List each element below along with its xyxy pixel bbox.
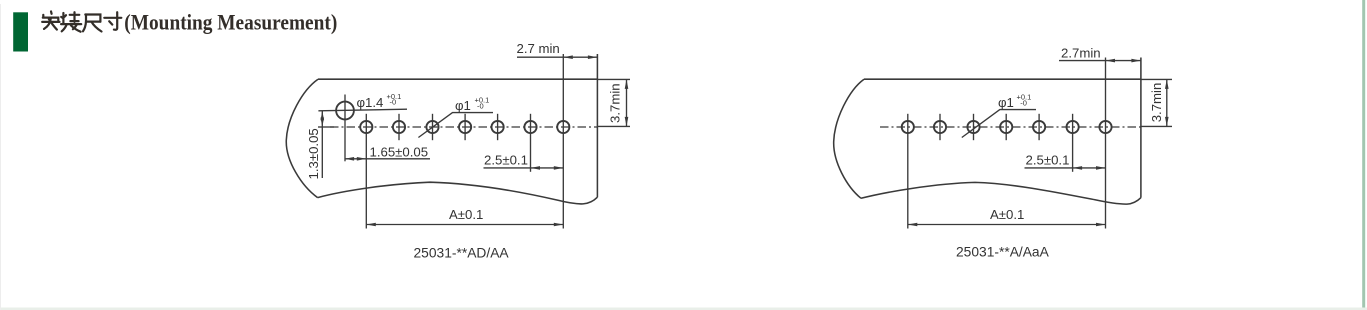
hole L6 bbox=[524, 121, 536, 133]
hole R3 bbox=[967, 121, 979, 133]
pcb left edge L bbox=[286, 79, 318, 197]
arrow 2.5 L left bbox=[531, 166, 541, 170]
dim line A R bbox=[908, 224, 1106, 226]
dim line 2.5 R bbox=[1025, 167, 1106, 169]
hole R5 axis bbox=[1038, 114, 1040, 140]
title chinese 安 bbox=[42, 11, 59, 29]
hole L0 vertical axis + ext bbox=[344, 95, 346, 162]
arrow A L left bbox=[366, 223, 376, 227]
centerline R bbox=[880, 126, 1141, 128]
hole L0 (large) bbox=[336, 102, 354, 120]
arrow 2.7 R left bbox=[1106, 59, 1116, 63]
arrow 3.7 R up bbox=[1165, 79, 1169, 89]
pcb left edge R bbox=[834, 79, 864, 198]
hole R4 bbox=[1000, 121, 1012, 133]
pcb right edge R bbox=[1140, 58, 1142, 198]
pcb top edge R bbox=[864, 78, 1141, 80]
arrow 3.7 R down bbox=[1165, 117, 1169, 127]
hole R7 bbox=[1099, 121, 1111, 133]
arrow 3.7 L up bbox=[625, 79, 629, 89]
arrow 2.7 L right bbox=[588, 55, 598, 59]
hole L3 bbox=[426, 121, 438, 133]
hole R1 bbox=[902, 121, 914, 133]
svg-text:2.7min: 2.7min bbox=[1061, 45, 1101, 60]
svg-text:2.7 min: 2.7 min bbox=[517, 41, 560, 56]
hole L5 axis bbox=[497, 114, 499, 140]
hole R4 axis bbox=[1005, 114, 1007, 140]
hole L7 bbox=[557, 121, 569, 133]
hole R3 axis bbox=[973, 114, 975, 140]
svg-text:(Mounting Measurement): (Mounting Measurement) bbox=[124, 10, 337, 35]
pcb top edge L bbox=[318, 78, 597, 80]
arrow A R right bbox=[1096, 223, 1106, 227]
hole R2 axis bbox=[939, 114, 941, 140]
svg-text:3.7min: 3.7min bbox=[608, 83, 623, 123]
hole R5 bbox=[1033, 121, 1045, 133]
dim line 3.7min R bbox=[1166, 79, 1168, 126]
leader phi1 L bbox=[418, 113, 493, 138]
svg-text:25031-**AD/AA: 25031-**AD/AA bbox=[414, 246, 510, 261]
hole L1 bbox=[360, 121, 372, 133]
arrow 2.5 R left bbox=[1073, 166, 1083, 170]
hole L4 bbox=[459, 121, 471, 133]
arrow 3.7 L down bbox=[625, 117, 629, 127]
hole R6 axis + 2.5 ext bbox=[1072, 114, 1074, 172]
hole R1 axis + A ext bbox=[907, 114, 909, 229]
hole L6 axis + 2.5 ext bbox=[530, 114, 532, 172]
hole L7 axis + exts bbox=[562, 54, 564, 229]
arrow 2.7 R right bbox=[1131, 59, 1141, 63]
svg-text:2.5±0.1: 2.5±0.1 bbox=[484, 153, 528, 168]
arrow A L right bbox=[554, 223, 564, 227]
hole L2 axis bbox=[398, 114, 400, 140]
hole R7 axis + exts bbox=[1105, 58, 1107, 229]
dim line 1.65 L bbox=[345, 158, 430, 160]
svg-text:-0: -0 bbox=[390, 98, 397, 107]
ext 1.3 bottom L bbox=[318, 126, 334, 128]
dim line 2.7min R bbox=[1059, 60, 1141, 62]
title chinese 尺 bbox=[83, 15, 102, 32]
page bottom border bbox=[0, 308, 1367, 310]
ext top-right corner R bbox=[1141, 78, 1172, 80]
leader phi1 R bbox=[962, 110, 1036, 138]
arrow 1.3 L up bbox=[321, 111, 325, 121]
ext top-right corner L bbox=[597, 78, 630, 80]
arrow 1.3 L down bbox=[321, 118, 325, 128]
svg-text:-0: -0 bbox=[1020, 98, 1027, 107]
pcb right edge L bbox=[596, 54, 598, 197]
hole R2 bbox=[934, 121, 946, 133]
title chinese 装 bbox=[61, 12, 81, 32]
header green block bbox=[13, 12, 28, 51]
hole L2 bbox=[393, 121, 405, 133]
pcb bottom edge L bbox=[318, 182, 598, 204]
hole L5 bbox=[492, 121, 504, 133]
arrow 1.65 L left bbox=[345, 157, 355, 161]
svg-text:A±0.1: A±0.1 bbox=[990, 207, 1024, 222]
dim line 2.7min L bbox=[517, 56, 597, 58]
pcb bottom edge R bbox=[861, 182, 1141, 204]
dim line 2.5 L bbox=[484, 167, 564, 169]
arrow 1.65 L right bbox=[357, 157, 367, 161]
arrow 2.5 L right bbox=[554, 166, 564, 170]
svg-text:φ1: φ1 bbox=[455, 98, 471, 113]
svg-text:φ1.4: φ1.4 bbox=[357, 95, 384, 110]
svg-text:25031-**A/AaA: 25031-**A/AaA bbox=[956, 245, 1050, 260]
arrow 2.7 L left bbox=[563, 55, 573, 59]
svg-text:φ1: φ1 bbox=[998, 95, 1014, 110]
page left faint border bbox=[0, 4, 1, 310]
arrow A R left bbox=[908, 223, 918, 227]
svg-text:1.3±0.05: 1.3±0.05 bbox=[306, 128, 321, 179]
svg-text:-0: -0 bbox=[477, 101, 484, 110]
svg-text:A±0.1: A±0.1 bbox=[449, 207, 483, 222]
hole L1 axis + A ext bbox=[365, 114, 367, 229]
hole R6 bbox=[1067, 121, 1079, 133]
dim line 3.7min L bbox=[626, 79, 628, 126]
centerline ext right L bbox=[597, 125, 630, 127]
hole L3 axis bbox=[432, 114, 434, 140]
svg-text:2.5±0.1: 2.5±0.1 bbox=[1026, 153, 1070, 168]
dim line A L bbox=[366, 224, 563, 226]
dim line 1.3 L bbox=[321, 111, 323, 178]
centerline L bbox=[330, 126, 597, 128]
title chinese 寸 bbox=[104, 12, 121, 30]
arrow 2.5 R right bbox=[1096, 166, 1106, 170]
centerline ext right R bbox=[1141, 125, 1172, 127]
hole L4 axis bbox=[464, 114, 466, 140]
hole L0 horizontal axis + leader underline bbox=[318, 109, 407, 111]
page right green border bbox=[1362, 0, 1365, 310]
svg-text:3.7min: 3.7min bbox=[1149, 83, 1164, 123]
svg-text:1.65±0.05: 1.65±0.05 bbox=[370, 144, 429, 159]
